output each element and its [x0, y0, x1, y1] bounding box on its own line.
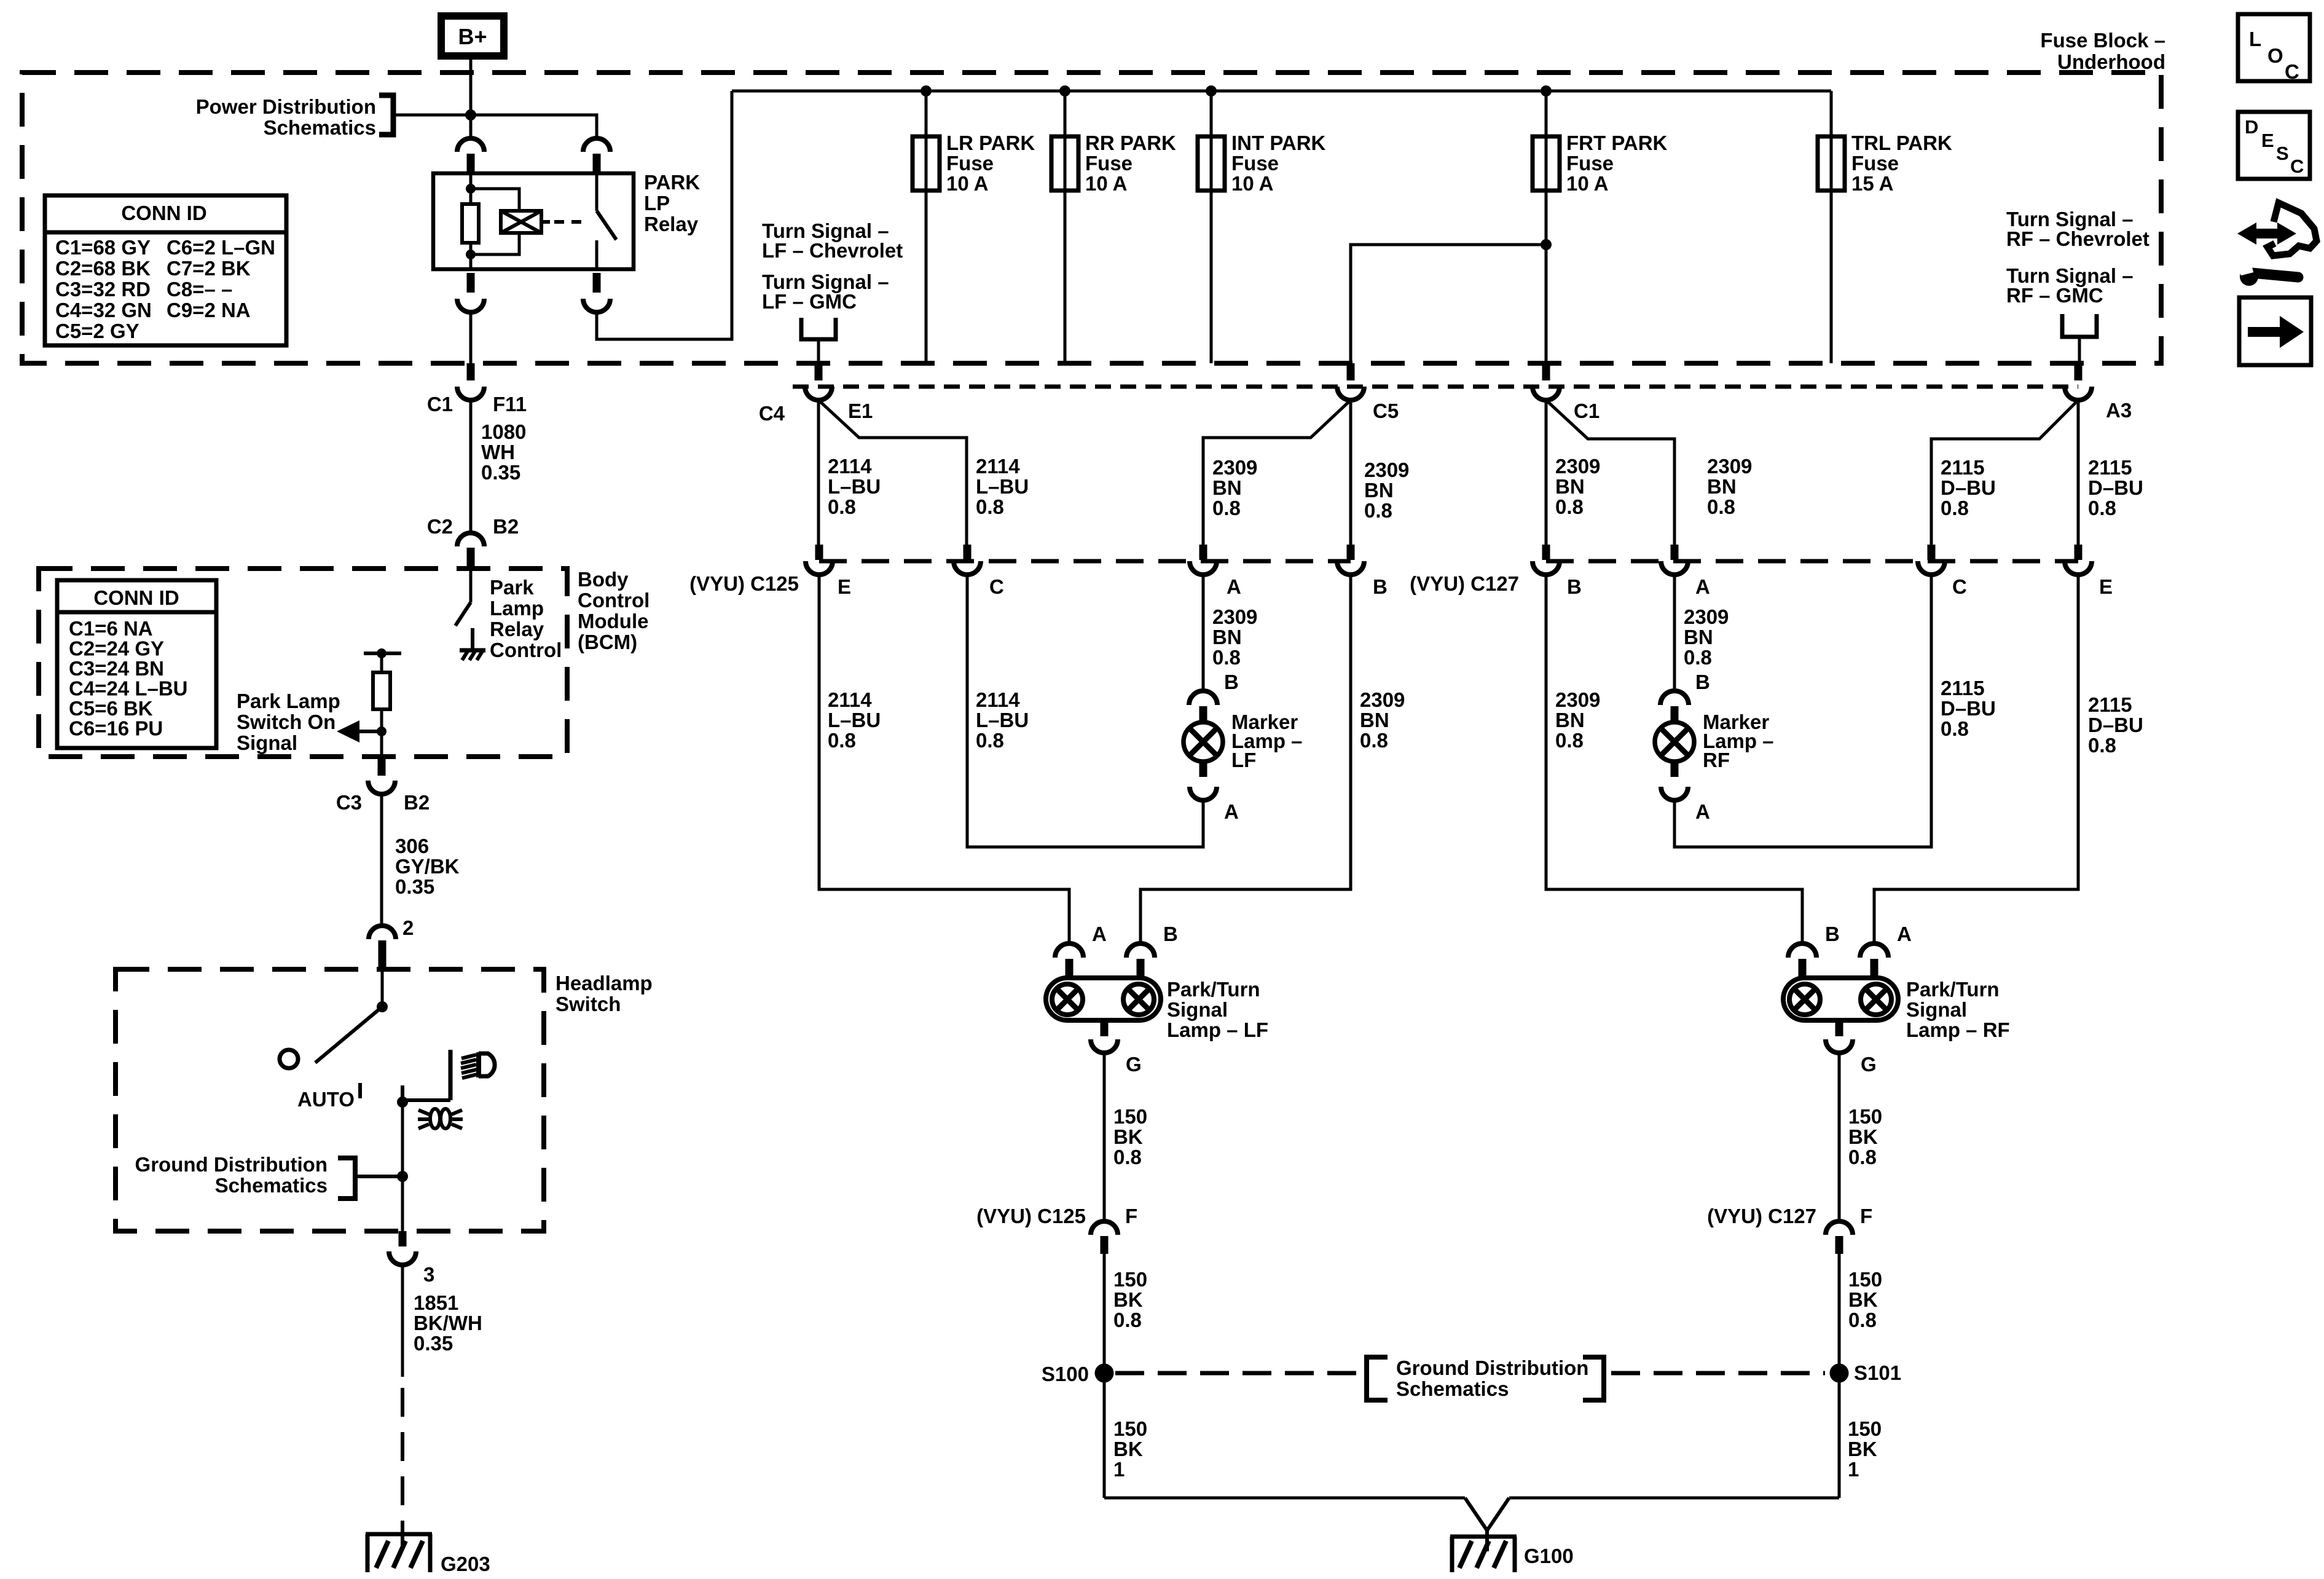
svg-text:0.8: 0.8	[1555, 729, 1584, 752]
svg-text:C: C	[2290, 156, 2304, 177]
fuse RR PARK 10 A	[1064, 91, 1067, 363]
svg-text:0.8: 0.8	[1941, 497, 1969, 519]
svg-text:D–BU: D–BU	[2088, 476, 2143, 499]
svg-text:(VYU) C125: (VYU) C125	[976, 1205, 1086, 1227]
wire 2115 D-BU C127-C to marker lamp RF	[1674, 575, 1931, 847]
svg-text:E: E	[2099, 575, 2113, 598]
svg-text:BN: BN	[1364, 479, 1394, 502]
wire 2114 L-BU C125-E to lamp LF pin A	[819, 575, 1069, 944]
svg-text:S: S	[2276, 143, 2289, 164]
connector: relay coil terminal top	[457, 138, 484, 152]
wire: dashed drop to G203	[401, 1388, 404, 1534]
svg-text:C1=6 NA: C1=6 NA	[69, 617, 153, 640]
wire 2115 D-BU C127-E to lamp RF pin A	[1874, 575, 2078, 944]
svg-text:L–BU: L–BU	[976, 709, 1029, 731]
wire: ground bus to G100	[1104, 1497, 1465, 1500]
svg-text:L–BU: L–BU	[976, 475, 1029, 498]
svg-text:F: F	[1125, 1205, 1137, 1227]
svg-text:Park: Park	[490, 576, 534, 599]
connector: relay switch terminal bottom	[593, 273, 601, 293]
svg-text:C3=24 BN: C3=24 BN	[69, 657, 164, 680]
connector C5 fuse block	[1347, 363, 1355, 380]
svg-text:B: B	[1163, 923, 1178, 945]
wire 306 GY/BK 0.35	[380, 794, 383, 926]
svg-text:BN: BN	[1555, 709, 1585, 731]
svg-text:Signal: Signal	[237, 731, 297, 754]
connector: marker lamp LF pin A	[1199, 762, 1207, 777]
svg-text:BN: BN	[1212, 626, 1242, 648]
connector: headlamp switch pin 3	[399, 1231, 407, 1246]
svg-text:Park/Turn: Park/Turn	[1906, 978, 2000, 1001]
body control module dashed border	[39, 569, 567, 757]
svg-text:B+: B+	[458, 24, 487, 49]
svg-text:Ground Distribution: Ground Distribution	[1396, 1357, 1588, 1379]
svg-text:BK: BK	[1113, 1125, 1143, 1148]
svg-text:Fuse: Fuse	[1085, 152, 1133, 175]
wire 2309 BN C127-B to lamp RF pin B	[1546, 575, 1802, 944]
svg-text:BK: BK	[1848, 1438, 1877, 1460]
svg-text:BK/WH: BK/WH	[414, 1312, 482, 1334]
splice S100	[1095, 1364, 1114, 1383]
svg-text:CONN ID: CONN ID	[121, 202, 206, 224]
wire: FRT PARK branch to connector C5	[1351, 245, 1546, 363]
svg-text:GY/BK: GY/BK	[395, 855, 460, 878]
svg-text:Relay: Relay	[490, 618, 544, 640]
svg-text:Headlamp: Headlamp	[555, 972, 653, 994]
svg-text:LF: LF	[1231, 749, 1256, 771]
svg-text:Lamp – RF: Lamp – RF	[1906, 1018, 2010, 1041]
svg-text:BK: BK	[1113, 1288, 1143, 1311]
svg-text:150: 150	[1113, 1268, 1147, 1291]
connector: marker lamp LF pin B	[1189, 691, 1217, 705]
svg-text:0.8: 0.8	[1848, 1146, 1877, 1168]
svg-text:10 A: 10 A	[1085, 172, 1127, 195]
svg-text:2115: 2115	[2088, 693, 2132, 716]
svg-text:Schematics: Schematics	[264, 116, 376, 139]
table CONN ID BCM	[57, 580, 216, 748]
connector C3 pin B2	[378, 757, 386, 776]
svg-text:C6=16 PU: C6=16 PU	[69, 717, 163, 740]
connector: lamp RF pin G	[1835, 1020, 1843, 1036]
connector: lamp LF pin A	[1055, 943, 1083, 958]
svg-text:D: D	[2245, 116, 2258, 138]
wire: B+ down to junction	[469, 60, 473, 138]
wire: park lamp output inside switch	[401, 1105, 404, 1231]
svg-text:0.8: 0.8	[1113, 1146, 1142, 1168]
connector: relay switch terminal top	[583, 138, 610, 152]
icon: park lamps	[430, 1109, 440, 1128]
svg-text:Switch On: Switch On	[237, 711, 336, 733]
wire 150 BK lamp LF ground to C125-F	[1103, 1053, 1106, 1221]
svg-text:Body: Body	[578, 568, 629, 591]
svg-text:LR PARK: LR PARK	[946, 132, 1035, 154]
svg-text:LF – GMC: LF – GMC	[762, 290, 857, 313]
svg-text:C7=2 BK: C7=2 BK	[167, 257, 251, 280]
svg-text:C2=68 BK: C2=68 BK	[55, 257, 151, 280]
svg-text:2115: 2115	[1941, 456, 1985, 479]
svg-text:PARK: PARK	[644, 171, 700, 194]
svg-text:A: A	[1224, 800, 1239, 823]
svg-text:C3=32 RD: C3=32 RD	[55, 278, 151, 301]
wire 2309 BN C125-A to marker lamp LF pin B	[1202, 575, 1205, 691]
svg-text:BN: BN	[1212, 476, 1242, 499]
svg-text:0.8: 0.8	[2088, 734, 2116, 757]
svg-text:(VYU) C127: (VYU) C127	[1410, 572, 1519, 595]
connector C1 fuse block	[1542, 363, 1550, 380]
svg-text:Power Distribution: Power Distribution	[196, 95, 376, 118]
svg-text:Switch: Switch	[555, 993, 621, 1015]
node: bus tap FRT PARK	[1541, 85, 1552, 96]
svg-text:2115: 2115	[2088, 456, 2132, 479]
svg-text:Schematics: Schematics	[1396, 1377, 1509, 1400]
connector C1 pin F11	[467, 363, 475, 380]
fuse block underhood dashed border	[22, 73, 2161, 363]
svg-text:BN: BN	[1555, 475, 1585, 498]
connector: headlamp switch pin 2	[369, 926, 396, 939]
svg-text:1851: 1851	[414, 1291, 458, 1314]
svg-text:150: 150	[1848, 1105, 1882, 1128]
switch: headlamp selector blade	[381, 969, 384, 1007]
contact: headlamp switch AUTO position	[280, 1050, 298, 1068]
connector: lamp LF pin B	[1126, 943, 1155, 958]
svg-text:0.8: 0.8	[828, 495, 856, 518]
svg-text:B2: B2	[404, 791, 430, 814]
fuse LR PARK 10 A	[925, 91, 928, 363]
wire: power distribution feed to relay switch	[393, 115, 597, 138]
svg-text:10 A: 10 A	[946, 172, 988, 195]
svg-text:FRT PARK: FRT PARK	[1566, 132, 1668, 154]
svg-text:C4: C4	[759, 402, 785, 425]
svg-text:E: E	[838, 575, 851, 598]
svg-text:B: B	[1825, 923, 1840, 945]
svg-text:BK: BK	[1113, 1438, 1143, 1460]
contact: park lamp position stub	[401, 1085, 404, 1105]
bracket: Power Distribution Schematics	[379, 95, 393, 135]
svg-text:C1=68 GY: C1=68 GY	[55, 236, 151, 259]
svg-text:F: F	[1860, 1205, 1872, 1227]
connector: marker lamp RF pin A	[1671, 762, 1679, 777]
connector C4 fuse block	[815, 363, 823, 380]
svg-text:G203: G203	[441, 1553, 490, 1575]
svg-text:1: 1	[1113, 1458, 1125, 1481]
svg-text:Control: Control	[490, 639, 562, 661]
svg-text:BN: BN	[1684, 626, 1713, 648]
svg-text:Park Lamp: Park Lamp	[237, 690, 340, 712]
svg-text:C1: C1	[427, 393, 453, 415]
B+ battery positive voltage symbol	[441, 16, 504, 56]
svg-text:O: O	[2267, 44, 2283, 67]
park/turn signal lamp RF	[1783, 978, 1898, 1020]
connector pin A	[1199, 545, 1207, 560]
wire 1080 WH 0.35	[469, 400, 473, 533]
svg-text:Control: Control	[578, 589, 650, 612]
svg-text:C2: C2	[427, 515, 453, 538]
wire: headlamp icon link	[402, 1098, 450, 1102]
svg-text:150: 150	[1113, 1417, 1147, 1440]
wire 2114 L-BU C125-C to marker lamp LF	[967, 575, 1203, 847]
svg-text:A: A	[1227, 575, 1241, 598]
svg-text:0.8: 0.8	[976, 495, 1004, 518]
svg-text:2309: 2309	[1555, 455, 1600, 478]
ground G100	[1450, 1535, 1517, 1539]
svg-text:AUTO: AUTO	[297, 1088, 355, 1111]
svg-text:C6=2 L–GN: C6=2 L–GN	[167, 236, 275, 259]
connector pin C	[1928, 545, 1936, 560]
table CONN ID fuse block	[45, 195, 286, 345]
wire 2114 L-BU branch C4/E1 to C125-C	[819, 400, 967, 545]
svg-text:2309: 2309	[1212, 456, 1257, 479]
bracket: ground distribution schematics headlamp switch	[338, 1158, 355, 1199]
svg-text:WH: WH	[481, 441, 515, 463]
svg-text:C9=2 NA: C9=2 NA	[167, 299, 251, 321]
svg-text:1: 1	[1848, 1458, 1859, 1481]
svg-text:0.8: 0.8	[1212, 646, 1241, 669]
relay box PARK LP Relay	[433, 173, 634, 269]
bracket: ground distribution schematics right	[1583, 1357, 1604, 1400]
svg-text:BN: BN	[1360, 709, 1389, 731]
connector pin E	[815, 545, 823, 560]
svg-text:0.8: 0.8	[1848, 1309, 1877, 1331]
connector: lamp LF pin G	[1101, 1020, 1109, 1036]
connector: relay coil terminal bottom	[467, 273, 475, 293]
svg-text:15 A: 15 A	[1851, 172, 1893, 195]
connector pin E	[2075, 545, 2083, 560]
svg-text:D–BU: D–BU	[1941, 697, 1996, 720]
svg-text:0.8: 0.8	[1212, 497, 1241, 519]
svg-text:2309: 2309	[1360, 688, 1405, 711]
svg-text:C: C	[989, 575, 1004, 598]
svg-text:306: 306	[395, 835, 429, 857]
icon: DESC reference box	[2238, 112, 2310, 179]
svg-text:BN: BN	[1707, 475, 1737, 498]
connector pin C	[964, 545, 972, 560]
svg-text:(BCM): (BCM)	[578, 631, 637, 653]
svg-text:1080: 1080	[481, 420, 526, 443]
headlamp switch dashed border	[116, 969, 544, 1231]
svg-text:Lamp: Lamp	[490, 597, 544, 620]
svg-text:2309: 2309	[1684, 605, 1729, 628]
connector: marker lamp RF pin B	[1660, 691, 1689, 705]
svg-text:Park/Turn: Park/Turn	[1167, 978, 1260, 1001]
svg-text:150: 150	[1113, 1105, 1147, 1128]
svg-text:Lamp – LF: Lamp – LF	[1167, 1018, 1268, 1041]
svg-text:2114: 2114	[828, 688, 872, 711]
svg-text:0.8: 0.8	[1684, 646, 1712, 669]
resistor: park lamp switch signal pull-up	[364, 652, 401, 655]
svg-text:B: B	[1224, 671, 1239, 693]
connector A3 fuse block	[2075, 363, 2083, 380]
park/turn signal lamp LF	[1046, 978, 1161, 1020]
wire 1851 BK/WH 0.35	[401, 1265, 404, 1377]
icon: LOC reference box	[2238, 14, 2310, 81]
svg-text:A: A	[1695, 575, 1710, 598]
svg-text:Fuse: Fuse	[1851, 152, 1899, 175]
ground G203	[366, 1532, 432, 1537]
svg-text:A: A	[1897, 923, 1912, 945]
connector C125 pin F	[1091, 1221, 1118, 1235]
wire 2309 BN C125-B to lamp LF pin B	[1140, 575, 1351, 944]
connector: lamp RF pin B	[1788, 943, 1816, 958]
svg-text:S100: S100	[1042, 1363, 1089, 1385]
svg-text:10 A: 10 A	[1231, 172, 1273, 195]
fuse FRT PARK 10 A	[1545, 91, 1548, 363]
wire 2115 D-BU drop A3 to C127-E	[2077, 400, 2080, 545]
fuse TRL PARK 15 A	[1830, 91, 1833, 363]
svg-text:0.8: 0.8	[828, 729, 856, 752]
connector pin A	[1671, 545, 1679, 560]
wire 150 BK C125-F to S100	[1103, 1254, 1106, 1498]
svg-text:150: 150	[1848, 1268, 1882, 1291]
dashed splice reference S100 to ground distribution	[1115, 1371, 1359, 1376]
svg-text:G: G	[1861, 1053, 1877, 1076]
svg-text:L–BU: L–BU	[828, 709, 881, 731]
svg-text:C1: C1	[1574, 400, 1600, 422]
svg-text:C8=– –: C8=– –	[167, 278, 232, 301]
fuse INT PARK 10 A	[1210, 91, 1213, 363]
svg-text:L: L	[2249, 28, 2261, 50]
svg-text:C4=24 L–BU: C4=24 L–BU	[69, 677, 188, 700]
svg-text:2: 2	[402, 916, 414, 939]
svg-text:C: C	[1952, 575, 1967, 598]
wire: relay coil output to C1 F11	[469, 312, 473, 363]
svg-text:Schematics: Schematics	[215, 1174, 328, 1197]
svg-text:C4=32 GN: C4=32 GN	[55, 299, 152, 321]
svg-text:C5=6 BK: C5=6 BK	[69, 697, 153, 720]
arrow: park lamp switch on signal	[358, 730, 382, 733]
svg-text:E1: E1	[848, 400, 873, 422]
wire 2309 BN drop C5 branch to C125-A	[1203, 400, 1351, 545]
svg-text:C5=2 GY: C5=2 GY	[55, 320, 139, 342]
svg-text:BK: BK	[1848, 1288, 1878, 1311]
svg-text:Fuse: Fuse	[1231, 152, 1279, 175]
connector C125 dashed row	[819, 559, 1351, 564]
svg-text:0.8: 0.8	[2088, 497, 2116, 519]
svg-text:0.8: 0.8	[1364, 499, 1392, 522]
icon: schematic navigation arrows and wrench	[2237, 222, 2296, 245]
wire 2309 BN drop C1 to C127-B	[1545, 400, 1548, 545]
svg-text:Fuse: Fuse	[1566, 152, 1614, 175]
svg-text:B2: B2	[493, 515, 519, 538]
icon: continuation right arrow box	[2239, 297, 2311, 365]
svg-text:F11: F11	[493, 393, 527, 415]
svg-text:3: 3	[423, 1263, 434, 1286]
connector C127 pin F	[1826, 1221, 1853, 1235]
svg-text:2309: 2309	[1707, 455, 1752, 478]
svg-text:2115: 2115	[1941, 677, 1985, 699]
svg-text:150: 150	[1848, 1417, 1882, 1440]
svg-text:2309: 2309	[1364, 459, 1409, 481]
svg-text:Signal: Signal	[1906, 998, 1967, 1021]
relay switch contact	[595, 173, 599, 211]
svg-text:Underhood: Underhood	[2057, 50, 2165, 73]
marker lamp LF	[1184, 722, 1223, 762]
svg-text:A: A	[1092, 923, 1107, 945]
wire 150 BK C127-F to S101	[1838, 1254, 1841, 1498]
svg-text:D–BU: D–BU	[1941, 476, 1996, 499]
svg-text:2309: 2309	[1555, 688, 1600, 711]
contact: headlamp position with headlamp icon	[449, 1050, 453, 1100]
wire 2114 L-BU drop C4 to C125-E	[817, 400, 820, 545]
svg-text:0.8: 0.8	[1707, 495, 1735, 518]
bracket: turn signal LF feed	[801, 318, 836, 339]
connector C127 dashed row	[1546, 559, 2078, 564]
svg-text:G100: G100	[1524, 1545, 1574, 1567]
relay coil winding	[471, 189, 519, 211]
connector row dotted line fuse block bottom	[793, 385, 2078, 389]
bracket: ground distribution schematics left	[1367, 1357, 1388, 1400]
svg-text:C3: C3	[336, 791, 362, 814]
svg-text:2114: 2114	[976, 688, 1020, 711]
svg-text:0.35: 0.35	[395, 875, 434, 898]
svg-text:INT PARK: INT PARK	[1231, 132, 1326, 154]
svg-text:0.35: 0.35	[414, 1332, 453, 1355]
svg-text:LP: LP	[644, 192, 670, 215]
svg-text:RF: RF	[1703, 749, 1730, 771]
svg-text:0.8: 0.8	[1113, 1309, 1142, 1331]
svg-text:D–BU: D–BU	[2088, 714, 2143, 736]
svg-text:Signal: Signal	[1167, 998, 1228, 1021]
node: bus tap LR PARK	[921, 85, 932, 96]
node: bus tap INT PARK	[1206, 85, 1217, 96]
svg-text:Fuse: Fuse	[946, 152, 994, 175]
svg-text:0.8: 0.8	[976, 729, 1004, 752]
connector: lamp RF pin A	[1860, 943, 1888, 958]
relay coil resistor	[469, 173, 473, 204]
svg-text:C: C	[2285, 60, 2299, 83]
svg-text:BK: BK	[1848, 1125, 1878, 1148]
svg-text:B: B	[1373, 575, 1388, 598]
bracket: turn signal RF feed	[2062, 314, 2097, 337]
wire: relay switch output riser to fuse bus	[597, 91, 732, 339]
marker lamp RF	[1655, 722, 1694, 762]
svg-text:G: G	[1126, 1053, 1142, 1076]
svg-text:2114: 2114	[976, 455, 1020, 478]
svg-text:Relay: Relay	[644, 213, 699, 235]
wire: fuse block feed bus	[732, 90, 1831, 93]
connector pin B	[1347, 545, 1355, 560]
svg-text:0.8: 0.8	[1555, 495, 1584, 518]
dashed splice reference ground distribution to S101	[1611, 1371, 1825, 1376]
node: bus tap RR PARK	[1059, 85, 1070, 96]
svg-text:B: B	[1567, 575, 1582, 598]
svg-text:RF – GMC: RF – GMC	[2006, 284, 2103, 307]
svg-text:S101: S101	[1854, 1361, 1901, 1384]
svg-text:L–BU: L–BU	[828, 475, 881, 498]
svg-text:RR PARK: RR PARK	[1085, 132, 1176, 154]
svg-text:C2=24 GY: C2=24 GY	[69, 637, 164, 660]
svg-text:(VYU) C127: (VYU) C127	[1707, 1205, 1816, 1227]
svg-text:A3: A3	[2106, 399, 2132, 422]
svg-text:Fuse Block –: Fuse Block –	[2040, 29, 2165, 52]
wire 2309 BN C127-A to marker lamp RF pin B	[1673, 575, 1676, 691]
svg-text:E: E	[2261, 130, 2274, 151]
svg-text:0.8: 0.8	[1360, 729, 1388, 752]
svg-text:Ground Distribution: Ground Distribution	[135, 1153, 328, 1176]
splice S101	[1830, 1364, 1849, 1383]
switch: park lamp relay control driver	[469, 569, 473, 602]
svg-text:CONN ID: CONN ID	[93, 586, 179, 609]
svg-text:0.35: 0.35	[481, 461, 520, 484]
wire 2309 BN branch C1 to C127-A	[1546, 400, 1674, 545]
ground: BCM internal	[460, 648, 485, 653]
svg-text:(VYU) C125: (VYU) C125	[689, 572, 799, 595]
node: B+ junction	[465, 109, 476, 120]
svg-text:B: B	[1695, 671, 1710, 693]
svg-text:10 A: 10 A	[1566, 172, 1608, 195]
svg-text:2114: 2114	[828, 455, 872, 478]
connector pin B	[1542, 545, 1550, 560]
wire 2115 D-BU branch A3 to C127-C	[1931, 400, 2078, 545]
